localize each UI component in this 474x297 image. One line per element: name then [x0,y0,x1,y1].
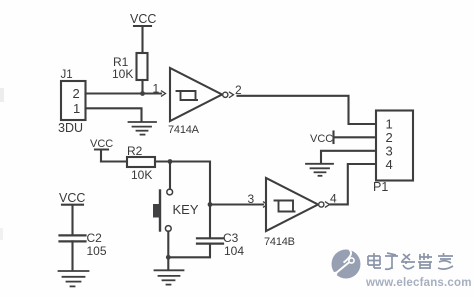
pin arrow U2 input [264,202,268,207]
node B junction (R2/KEY) [168,159,173,164]
svg-text:1: 1 [73,101,80,116]
capacitor C2 [60,231,107,258]
edge smudge left [0,88,4,102]
output bubble U1 [223,92,228,97]
wire P1 pin3 to ground [321,151,376,164]
ground (KEY/C3) [155,270,184,284]
svg-text:R2: R2 [127,144,143,158]
op-amp U2 inverter 7414B [264,178,318,248]
wire node C to U2 input [210,203,263,205]
ground (C2) [59,271,89,286]
svg-text:www.elecfans.com: www.elecfans.com [365,277,472,289]
pin arrow U1 input [162,91,166,96]
op-amp U1 inverter 7414A [168,68,222,136]
svg-text:4: 4 [330,192,337,206]
node C junction (U2 input node) [208,202,213,207]
node A junction [140,91,145,96]
svg-text:7414A: 7414A [168,124,200,136]
wire J1 pin2 to U1 input [86,92,162,94]
power VCC (at C2) [59,191,85,235]
svg-text:3: 3 [248,192,255,206]
wire P1 pin4 to U2 output [331,164,377,204]
connector J1 [58,69,86,135]
svg-text:VCC: VCC [310,133,333,145]
svg-text:J1: J1 [61,69,73,81]
svg-text:VCC: VCC [90,138,113,150]
wire VCC to P1 pin2 [334,136,376,138]
svg-text:10K: 10K [131,168,152,182]
svg-text:KEY: KEY [173,202,199,217]
svg-text:4: 4 [386,157,393,172]
svg-text:105: 105 [87,244,107,258]
wire R1 to node A [141,80,143,94]
svg-text:C2: C2 [87,231,103,245]
svg-text:C3: C3 [223,231,239,245]
svg-text:1: 1 [153,82,160,96]
svg-text:P1: P1 [373,180,388,194]
output bubble U2 [319,202,324,207]
svg-text:VCC: VCC [130,12,156,26]
wire C2 to ground [71,241,73,270]
svg-text:104: 104 [224,244,244,258]
switch KEY [153,189,199,231]
wire C3 bottom to node D [168,244,210,258]
connector P1 [373,111,413,195]
ground (J1 pin1) [129,122,157,135]
watermark text 电子发烧友 (pseudo CJK strokes) [368,253,453,269]
watermark logo elecfans [332,248,361,279]
node D junction [166,255,171,260]
resistor R2 [127,144,155,182]
svg-text:3DU: 3DU [58,121,83,135]
svg-text:10K: 10K [112,67,133,81]
wire node B down to KEY [169,162,171,190]
power VCC (top, for R1) [130,12,156,53]
svg-text:2: 2 [73,86,80,101]
pin arrow U1 output [230,92,234,97]
wire node C down to C3 [209,205,211,239]
resistor R1 [112,53,148,81]
capacitor C3 [197,231,244,258]
wire R2 to node B and down [155,162,210,205]
svg-text:VCC: VCC [59,191,85,205]
power VCC (at R2) [90,138,113,162]
wire J1 pin1 to ground [86,108,142,121]
power VCC (at P1 pin2) [310,132,334,146]
svg-text:7414B: 7414B [264,236,295,248]
pin arrow U2 output [326,202,330,207]
wire KEY bottom to node D [167,231,169,270]
ground (P1 pin3) [306,164,333,176]
wire VCC to R2 [101,160,127,162]
wire U1 output to P1 pin1 [238,96,377,124]
